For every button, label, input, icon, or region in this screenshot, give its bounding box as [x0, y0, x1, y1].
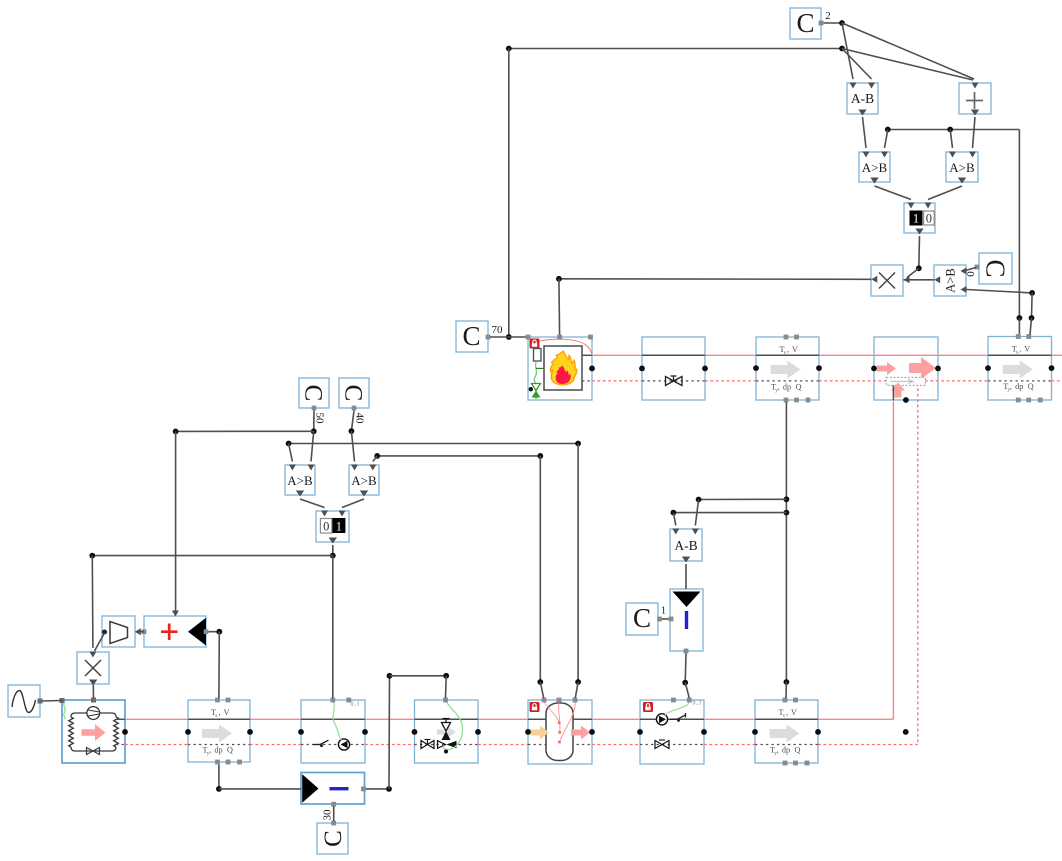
boiler green valve — [532, 384, 541, 391]
switch 1/0 display — [910, 211, 923, 226]
switch 1/0 output triangle — [915, 229, 923, 235]
sine source output port — [38, 699, 43, 704]
wire to P-controller input — [219, 788, 301, 790]
P-controller blue minus bar — [330, 787, 349, 790]
svg-text:Q: Q — [227, 746, 233, 755]
sine source block body — [8, 685, 40, 717]
wire multiplier X to heat pump port — [92, 685, 94, 698]
sensor T,V (top row) flow arrow — [771, 361, 801, 379]
sensor T,V (top row) top ports — [784, 335, 789, 340]
heat pump left zigzag coil — [69, 717, 74, 747]
sensor T,V block (bottom left) body — [188, 700, 250, 762]
sensor T,V (top right) flow arrow — [1003, 361, 1033, 379]
A-B (lower) input arrows — [672, 529, 679, 535]
comparator A&gt;B (mid left) body — [285, 465, 315, 495]
pump (bottom) side connection dots — [298, 729, 304, 735]
comparator mid-left input arrows — [289, 465, 296, 471]
boiler lock icon — [530, 339, 540, 349]
junction node above three-way valve — [443, 673, 449, 679]
mixer tee fitting box — [886, 377, 925, 385]
wire tank column left vertical — [539, 456, 541, 682]
wire comparator mid-right to switch 0/1 — [342, 499, 364, 508]
wire comparator mid-left to switch 0/1 — [300, 499, 325, 508]
wire upper tap horizontal — [699, 498, 787, 500]
boiler inner combustion box — [544, 346, 582, 390]
valve (top row) side connection dots — [639, 366, 645, 372]
junction node above boiler — [556, 276, 562, 282]
heat pump refrigerant loop — [75, 713, 112, 751]
svg-text:A>B: A>B — [287, 473, 313, 488]
svg-text:C: C — [340, 385, 367, 402]
sensor T,V (bottom left) top ports — [215, 698, 220, 703]
wire down to bottom-left sensor top port — [218, 632, 220, 698]
boiler control line (green) — [534, 361, 537, 383]
wire boiler column vertical — [508, 49, 510, 338]
wire bottom-left sensor down — [218, 765, 220, 789]
return pipe segment inside top-row blocks (dark dashed) — [582, 380, 592, 382]
sensor T,V (bottom right) bottom ports — [783, 761, 788, 766]
wire switch 0/1 output down — [332, 545, 334, 556]
wire junction A to + input — [842, 23, 974, 79]
long wire mid horizontal to tank (right) — [289, 443, 578, 445]
svg-text:A>B: A>B — [943, 268, 957, 292]
junction node below bottom-left sensor — [216, 786, 222, 792]
heat pump compressor circle — [87, 707, 100, 720]
pump (right) lock icon — [643, 702, 653, 712]
junction node left column — [89, 553, 95, 559]
junction node (to comparator mid-right) — [374, 453, 380, 459]
svg-text:1: 1 — [661, 606, 666, 617]
svg-text:,: , — [778, 383, 780, 392]
wire C1 to integrator — [662, 618, 669, 620]
junction node on C70 wire — [506, 334, 512, 340]
storage tank side connection dots — [525, 729, 531, 735]
constant C0 glyph (rotated) — [980, 259, 1010, 277]
valve (top row) bowtie symbol — [666, 377, 683, 386]
constant C1 block body — [626, 603, 658, 635]
multiplier X right input arrow — [904, 276, 910, 283]
rotated comparator input 2 arrow — [961, 286, 967, 293]
wire to A-B (lower) input 2 — [695, 500, 698, 526]
junction node on sensor column (upper tap) — [784, 496, 790, 502]
storage tank sensor dots (red) — [558, 721, 561, 724]
three-way valve horizontal triangles — [438, 741, 446, 749]
integrator block body — [670, 589, 703, 651]
pump (right) switch symbol — [670, 718, 677, 720]
three-way valve control loop (green) — [443, 700, 462, 750]
wire C2 output to junction A — [824, 22, 843, 24]
heat pump block body — [62, 700, 125, 763]
junction node left end (lower tap) — [671, 510, 677, 516]
wire to comparator mid-left input 1 — [289, 444, 293, 462]
storage tank block body — [528, 700, 592, 764]
constant C0 value label 0 — [964, 271, 976, 277]
constant C50 output port — [312, 406, 317, 411]
wire integrator to pump port — [685, 683, 689, 698]
wire to comparator mid-right input 2 — [373, 456, 377, 462]
long wire multiplier X to boiler top — [559, 278, 871, 281]
switch 0/1 output triangle — [329, 538, 337, 544]
three-way valve up arrow (gray) — [437, 726, 456, 738]
wire comparator upper-right to switch 1/0 — [928, 186, 962, 200]
junction node below switch 1/0 — [916, 265, 922, 271]
A-B (top) input arrows — [850, 83, 857, 89]
wire into tank port 1 — [540, 682, 543, 698]
sensor T,V block (bottom right) body — [755, 700, 818, 763]
long wire top horizontal to boiler column — [509, 48, 842, 50]
return pipe segment inside bottom-row blocks (dark dashed) — [188, 744, 250, 746]
switch 0/1 block body — [316, 511, 349, 542]
boiler flame inner — [556, 366, 571, 384]
wire tank column right vertical — [577, 444, 579, 683]
boiler block body — [528, 337, 592, 400]
wire comparator upper-left to switch 1/0 — [875, 186, 912, 200]
mixer small inlet arrow (pink) — [877, 362, 896, 375]
junction node above tank column (left) — [537, 453, 543, 459]
constant C2 block body — [790, 8, 821, 39]
wire A-B (lower) to integrator — [685, 564, 687, 589]
wire + block right output to sensor column — [209, 631, 220, 633]
mixer up arrow (pink) — [891, 383, 905, 398]
adder-integrator left output port — [142, 629, 147, 634]
constant C40 glyph (rotated) — [340, 385, 367, 402]
junction node on comparator feed (left) — [885, 127, 891, 133]
boiler internal supply curve (red) — [540, 339, 592, 355]
svg-text:dp: dp — [214, 746, 222, 755]
wire junction B to A-B input 2 — [842, 49, 872, 80]
heat pump supply stub — [116, 718, 125, 720]
long wire mid horizontal to tank (left) — [377, 455, 540, 457]
wire down to adder-integrator + input — [175, 431, 177, 612]
wire C0 to rotated comparator input 1 — [966, 268, 977, 271]
mixer side connection dots — [871, 366, 877, 372]
constant C40 output port — [352, 406, 357, 411]
constant C30 glyph (rotated) — [320, 830, 347, 847]
A-B (top) output triangle — [858, 110, 866, 116]
mixer internal drop line (dark) — [892, 385, 894, 400]
boiler green valve node dot — [529, 387, 533, 391]
heat pump expansion valve bowtie — [87, 748, 100, 755]
junction node on C50 wire — [311, 428, 317, 434]
junction node on sensor column (lower tap) — [784, 510, 790, 516]
wire P-controller output right — [366, 788, 389, 790]
pipe end connection dot (bottom right) — [903, 729, 909, 735]
adder + block body — [959, 83, 991, 114]
rotated comparator left output arrow — [934, 276, 940, 283]
sensor T,V (top right) top ports — [1016, 334, 1021, 339]
wire C40 junction to comparator mid-right input 1 — [351, 431, 354, 461]
svg-text:70: 70 — [492, 324, 504, 336]
comparator upper-right output triangle — [958, 178, 966, 184]
heat pump flow arrow (pink) — [82, 724, 106, 741]
valve block (top row) body — [642, 337, 705, 400]
adder-integrator + block body — [144, 616, 206, 647]
sine source glyph — [12, 691, 36, 713]
sensor T,V block (top right) body — [988, 337, 1052, 401]
svg-text:V: V — [1024, 345, 1030, 354]
storage tank top ports — [542, 698, 547, 703]
multiplier X (lower) glyph — [85, 660, 101, 676]
wire rotated comparator input 2 feed — [967, 290, 1033, 293]
junction node above tank (left) — [537, 679, 543, 685]
wire sensor (top) bottom port down — [785, 402, 787, 682]
junction node left end (upper tap) — [696, 497, 702, 503]
switch 1/0 block body — [904, 203, 935, 233]
multiplier X (lower) top input arrow — [89, 652, 96, 658]
svg-text:A>B: A>B — [862, 160, 888, 175]
P-controller right output port — [361, 787, 366, 792]
constant C0 output port — [975, 265, 980, 270]
supply pipe segment inside bottom-row blocks (dark) — [188, 718, 250, 720]
wire C50 junction to comparator mid-left input 2 — [311, 431, 314, 461]
multiplier X (upper) body — [871, 265, 903, 296]
pump (bottom) rotor circle — [338, 739, 349, 750]
constant C70 output port — [486, 335, 491, 340]
pump (bottom) switch symbol — [313, 744, 320, 746]
heat pump control squiggle (green) — [64, 702, 65, 720]
supply pipe riser (red vertical from mixer to bottom row) — [892, 400, 894, 719]
svg-text:dp: dp — [1015, 382, 1023, 391]
sensor T,V block (top row) body — [756, 337, 819, 400]
comparator mid-right input arrows — [351, 465, 358, 471]
constant C50 glyph (rotated) — [300, 385, 327, 402]
P-controller minus block body — [301, 773, 365, 805]
heat pump right connection dot — [122, 729, 128, 735]
svg-text:V: V — [792, 345, 798, 354]
sensor T,V (bottom right) flow arrow — [770, 725, 800, 743]
sensor T,V (bottom left) flow arrow — [202, 725, 232, 743]
pump (right) bowtie valve — [655, 741, 669, 749]
storage tank sensor curves (red) — [544, 701, 559, 723]
svg-text:0..1: 0..1 — [351, 702, 360, 708]
sensor T,V (top right) bottom ports — [1016, 398, 1021, 403]
svg-text:30: 30 — [321, 809, 333, 821]
return pipe (top row, red dashed) — [592, 380, 642, 382]
wire into bottom-right sensor port — [785, 682, 787, 698]
heat pump right zigzag coil — [114, 717, 119, 747]
wire integrator output down — [684, 654, 687, 683]
wire feed to comparator upper-right input 1 — [950, 130, 952, 149]
heat pump top-left corner port — [60, 698, 65, 703]
wire feed to comparator upper-left input 2 — [885, 130, 888, 149]
three-way valve bottom node dot — [444, 750, 448, 754]
svg-text:C: C — [320, 830, 347, 847]
svg-text:,: , — [787, 345, 789, 354]
pump (right) side connection dots — [637, 729, 643, 735]
constant C1 output port — [657, 617, 662, 622]
comparator mid-right output triangle — [360, 491, 368, 497]
svg-text:Q: Q — [796, 383, 802, 392]
multiplier X (upper) glyph — [879, 273, 895, 289]
svg-text:,: , — [218, 708, 220, 717]
svg-text:C: C — [980, 259, 1010, 277]
sensor T,V (bottom right) top ports — [783, 698, 788, 703]
adder-integrator red plus glyph — [161, 630, 178, 633]
svg-text:2: 2 — [825, 10, 831, 22]
sensor T,V (top row) side connection dots — [753, 365, 759, 371]
amplifier block body — [102, 616, 135, 647]
constant C1 to integrator port — [669, 617, 674, 622]
comparator upper-left input arrows — [863, 152, 870, 158]
adder-integrator black triangle — [188, 618, 206, 646]
boiler flame outer — [550, 351, 576, 385]
integrator output port — [684, 649, 689, 654]
svg-text:A>B: A>B — [351, 473, 377, 488]
constant C2 output port — [819, 21, 824, 26]
pump (bottom) control curve (green) — [333, 701, 342, 741]
svg-text:A-B: A-B — [674, 538, 697, 553]
boiler top ports — [526, 335, 531, 340]
constant C50 value label — [313, 413, 325, 425]
adder + glyph — [966, 100, 983, 102]
constant C70 block body — [456, 321, 488, 352]
wire + output to comparator upper-right input 2 — [973, 117, 976, 148]
constant C50 block body — [299, 378, 329, 408]
wire junction B to + input — [842, 49, 973, 81]
storage tank outlet arrow (pink) — [571, 726, 590, 740]
svg-text:0: 0 — [323, 520, 329, 534]
junction node mid-right — [575, 441, 581, 447]
svg-text:,: , — [1019, 345, 1021, 354]
wire P-controller to C30 — [333, 806, 335, 821]
wire down to boiler control port — [558, 279, 561, 335]
constant C30 top port — [331, 821, 336, 826]
constant C30 block body — [317, 823, 348, 854]
long wire to adder-integrator column — [176, 430, 314, 432]
long wire comparator feed horizontal — [888, 129, 1020, 131]
wire rotated comparator to multiplier X — [904, 279, 935, 281]
sensor T,V (top row) bottom ports — [784, 398, 789, 403]
wire down to three-way valve port — [445, 676, 448, 698]
switch 0/1 display — [320, 519, 332, 534]
+ block input arrow — [972, 83, 979, 89]
svg-text:C: C — [462, 321, 480, 351]
P-controller bottom output port — [331, 802, 336, 807]
junction node above sensor port 2 — [1029, 315, 1035, 321]
subtractor A-B (lower) body — [670, 529, 702, 561]
boiler control stub (green) — [536, 367, 544, 369]
three-way valve side connection dots — [412, 729, 418, 735]
wire switch column down to pump — [332, 556, 334, 698]
mixer/tee block body — [874, 337, 938, 400]
svg-text:40: 40 — [353, 413, 365, 425]
wire down to multiplier X (lower) — [91, 556, 94, 648]
svg-text:dp: dp — [783, 383, 791, 392]
comparator A&gt;B (mid right) body — [349, 465, 379, 495]
svg-text:1: 1 — [336, 520, 342, 534]
junction node below switch 0/1 — [330, 553, 336, 559]
integrator I bar — [685, 611, 688, 629]
svg-text:C: C — [796, 8, 814, 38]
svg-text:C: C — [300, 385, 327, 402]
multiplier X left output arrow — [871, 276, 877, 283]
svg-text:s: s — [1016, 350, 1018, 355]
pump (right) rotor circle — [656, 714, 667, 725]
constant C0 block body — [979, 253, 1012, 284]
comparator upper-right input arrows — [949, 152, 956, 158]
wire sine source to heat pump corner — [43, 700, 63, 703]
supply pipe (top row, red solid) — [592, 354, 642, 356]
wire down toward top-right sensor port 2 — [1031, 293, 1034, 318]
wire horizontal to three-way valve column — [390, 675, 447, 677]
svg-text:50: 50 — [313, 413, 325, 425]
switch 1/0 input arrows — [908, 203, 915, 209]
three-way valve top port — [443, 698, 448, 703]
svg-text:s: s — [783, 714, 785, 719]
wire to A-B (lower) input 1 — [673, 513, 675, 526]
wire junction A to A-B input 1 — [842, 23, 853, 79]
pump (bottom) top ports — [330, 698, 335, 703]
wire C50 output down — [313, 411, 315, 432]
junction node left (to + block) — [173, 429, 179, 435]
svg-text:1: 1 — [913, 212, 919, 226]
svg-text:,: , — [777, 746, 779, 755]
wire into tank port 3 — [575, 682, 578, 698]
amplifier triangle glyph — [110, 622, 128, 644]
pump block (bottom) body — [301, 700, 365, 763]
wire + block output to amplifier input — [137, 631, 144, 633]
comparator mid-left output triangle — [296, 491, 304, 497]
junction node on C40 wire — [349, 428, 355, 434]
wire into top-right sensor port 1 — [1018, 318, 1020, 334]
junction node B — [839, 46, 845, 52]
constant C40 block body — [339, 378, 369, 408]
junction node below integrator — [682, 680, 688, 686]
svg-text:A>B: A>B — [949, 160, 975, 175]
wire A-B output to comparator upper-left input 1 — [863, 117, 867, 148]
rotated comparator A&gt;B label — [943, 268, 957, 292]
svg-text:s: s — [215, 714, 217, 719]
wire lower tap horizontal — [673, 512, 786, 514]
A-B (lower) output triangle — [682, 557, 690, 563]
mixer big outlet arrow (pink) — [909, 357, 936, 379]
junction node above P-controller column — [387, 673, 393, 679]
+ block output triangle — [971, 110, 979, 116]
storage tank vessel — [546, 703, 573, 761]
supply pipe (bottom row, red solid) — [125, 718, 188, 720]
pump (right) control curve (green) — [665, 700, 690, 716]
svg-text:Q: Q — [795, 746, 801, 755]
svg-text:V: V — [224, 708, 230, 717]
wire into top-right sensor port 2 — [1030, 318, 1032, 335]
comparator A&gt;B (upper left) body — [859, 152, 890, 182]
junction node right of P-controller — [386, 786, 392, 792]
svg-text:0: 0 — [926, 212, 932, 226]
sensor T,V (bottom right) side connection dots — [752, 729, 758, 735]
integrator input triangle — [673, 592, 701, 608]
svg-text:s: s — [784, 351, 786, 356]
switch 0/1 input arrows — [321, 511, 328, 517]
P-controller black triangle — [302, 774, 318, 803]
pump (right) top ports — [671, 698, 676, 703]
junction node right of rotated comparator — [1029, 290, 1035, 296]
wire amplifier left port to multiplier X — [95, 633, 105, 651]
comparator A&gt;B (upper right) body — [946, 152, 978, 182]
comparator upper-left output triangle — [870, 178, 878, 184]
junction node top-left — [506, 46, 512, 52]
junction node right of + block — [216, 629, 222, 635]
storage tank inlet arrow (orange) — [530, 726, 549, 740]
junction node on comparator feed (right) — [947, 127, 953, 133]
wire comparator feed down to top-right sensor — [1018, 130, 1020, 319]
sensor T,V (top right) side connection dots — [985, 365, 991, 371]
mixer bottom connection dot — [903, 397, 909, 403]
wire junction to multiplier X input — [907, 268, 919, 277]
svg-text:,: , — [1010, 382, 1012, 391]
junction node A — [839, 20, 845, 26]
wire switch 1/0 output down — [918, 236, 921, 268]
junction node above top-right sensor — [1017, 315, 1023, 321]
